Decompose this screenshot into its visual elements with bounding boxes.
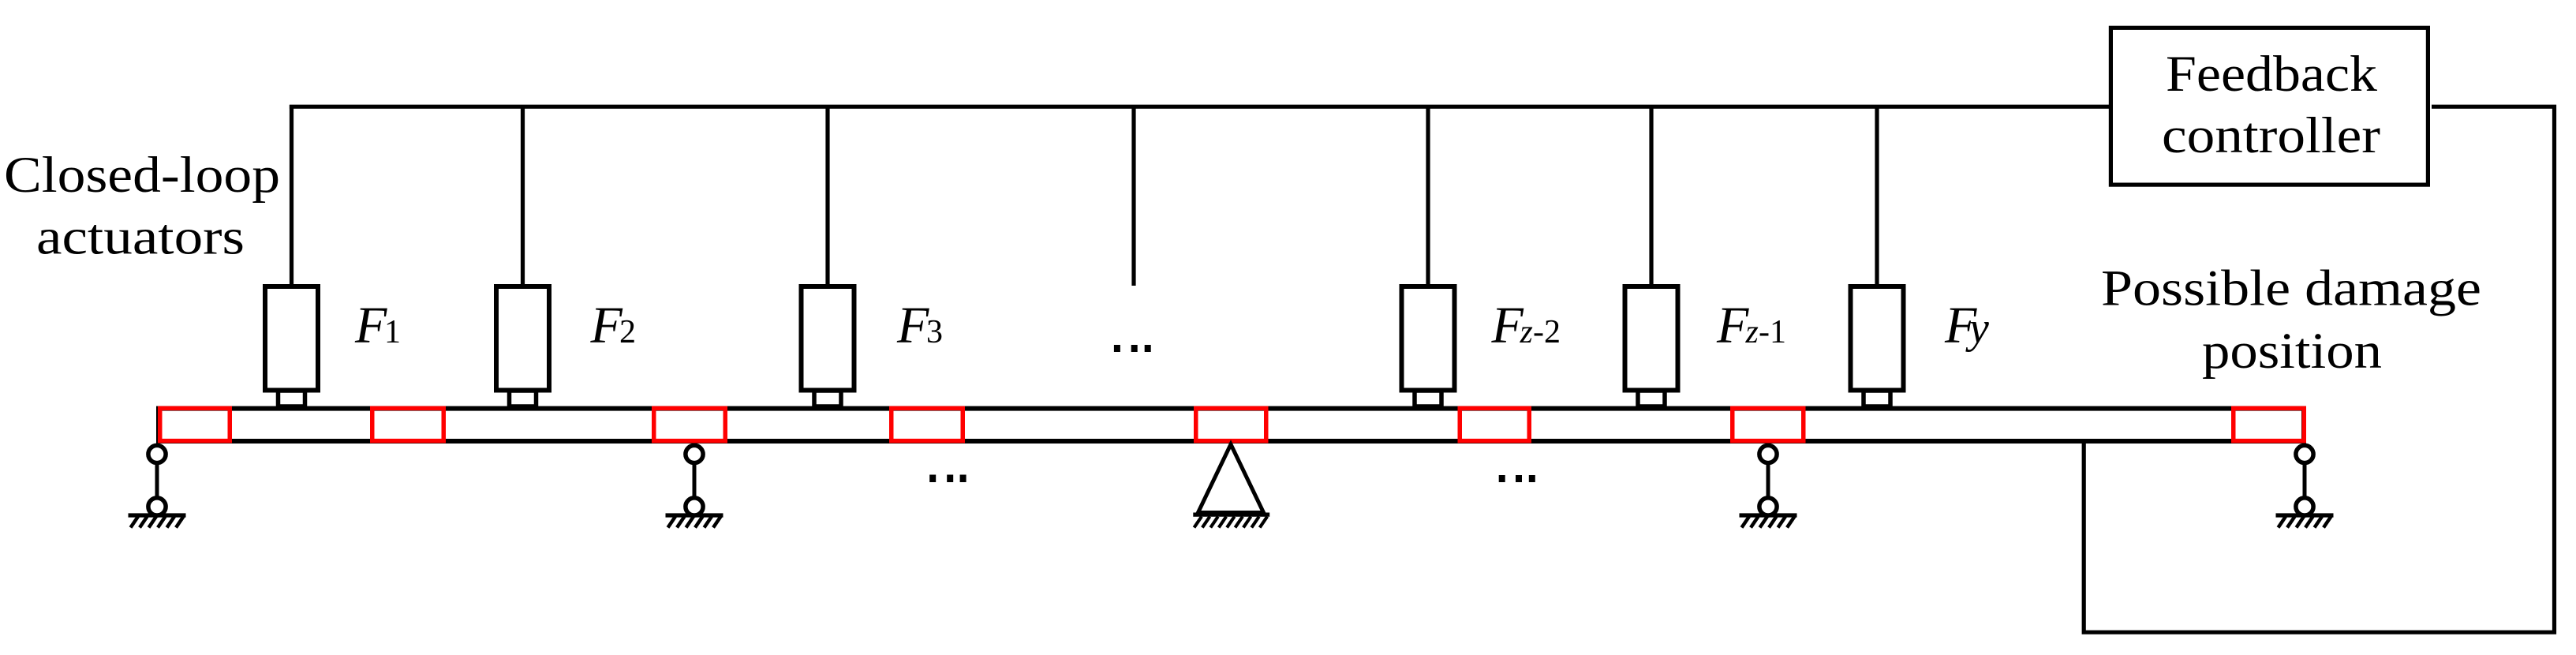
svg-text:Feedback: Feedback [2166,46,2378,103]
svg-text:1: 1 [384,314,401,350]
svg-text:z: z [1520,314,1533,350]
svg-text:y: y [1965,304,1989,353]
svg-text:Closed-loop: Closed-loop [4,147,280,204]
svg-text:Possible damage: Possible damage [2101,260,2481,317]
svg-text:2: 2 [619,314,636,350]
svg-text:actuators: actuators [36,209,245,266]
svg-text:F: F [590,297,623,354]
svg-text:controller: controller [2162,107,2380,164]
svg-text:position: position [2202,323,2382,380]
svg-text:F: F [1491,297,1524,354]
svg-text:F: F [896,297,929,354]
svg-text:z: z [1745,314,1759,350]
svg-text:3: 3 [926,314,943,350]
svg-text:F: F [354,297,387,354]
svg-text:-2: -2 [1533,314,1561,350]
svg-text:-1: -1 [1759,314,1786,350]
svg-text:F: F [1716,297,1749,354]
